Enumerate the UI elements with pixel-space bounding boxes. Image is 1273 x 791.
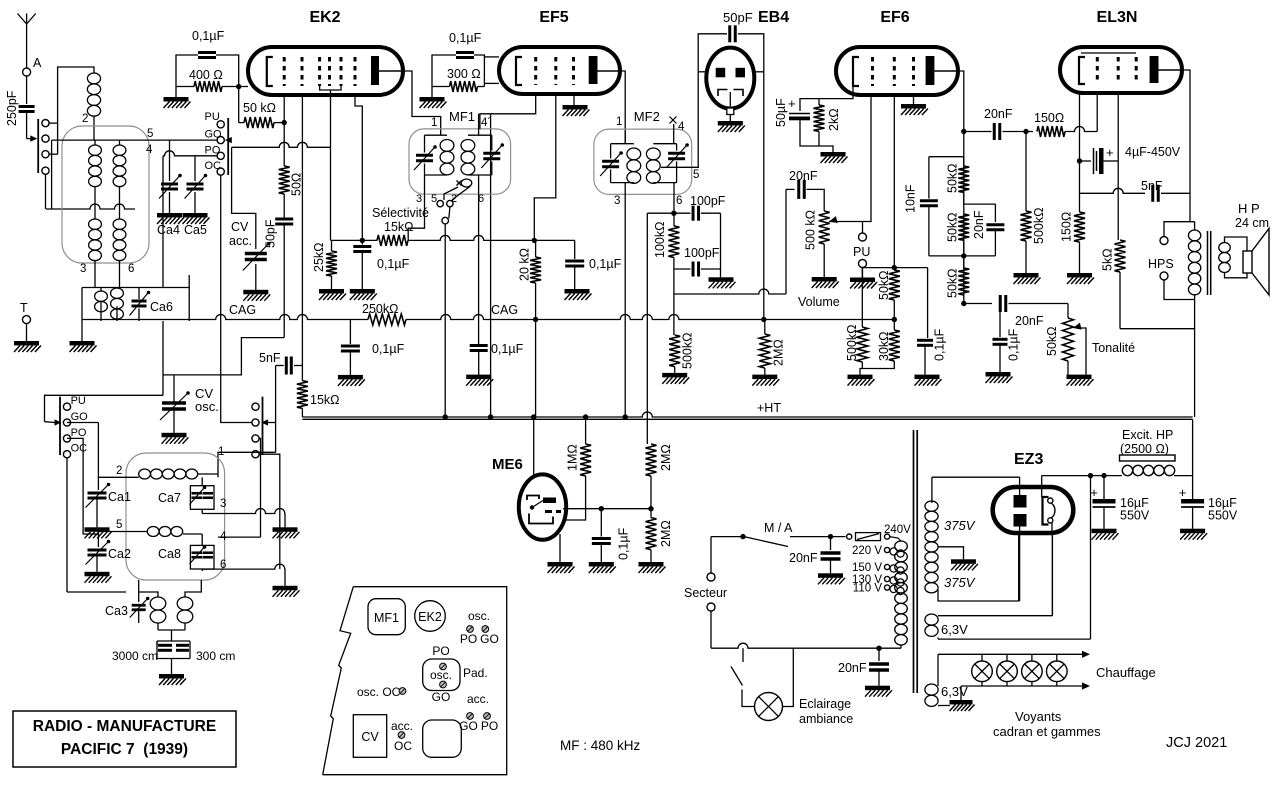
svg-text:30kΩ: 30kΩ <box>877 332 891 362</box>
svg-text:0,1µF: 0,1µF <box>589 257 622 271</box>
svg-text:ME6: ME6 <box>492 456 523 473</box>
svg-text:0,1µF: 0,1µF <box>491 342 524 356</box>
svg-text:Voyants: Voyants <box>1015 709 1062 724</box>
svg-text:0,1µF: 0,1µF <box>449 31 482 45</box>
svg-text:+: + <box>1179 485 1187 500</box>
svg-text:PU: PU <box>71 395 86 407</box>
svg-text:4: 4 <box>146 144 153 156</box>
svg-text:50pF: 50pF <box>723 10 753 25</box>
svg-text:T: T <box>20 301 28 315</box>
svg-text:0,1µF: 0,1µF <box>377 257 410 271</box>
svg-text:50pF: 50pF <box>264 219 278 248</box>
svg-text:acc.: acc. <box>229 234 252 248</box>
svg-text:GO: GO <box>71 411 89 423</box>
svg-text:5: 5 <box>693 169 699 181</box>
svg-text:240V: 240V <box>884 524 911 536</box>
svg-text:Secteur: Secteur <box>684 586 727 600</box>
svg-text:MF : 480 kHz: MF : 480 kHz <box>560 738 641 753</box>
svg-text:CV: CV <box>231 220 249 234</box>
svg-text:Ca4: Ca4 <box>157 223 180 237</box>
svg-text:50Ω: 50Ω <box>290 173 304 196</box>
svg-text:2: 2 <box>116 465 122 477</box>
svg-text:50 kΩ: 50 kΩ <box>243 101 276 115</box>
svg-text:5: 5 <box>116 519 122 531</box>
svg-text:EL3N: EL3N <box>1097 9 1138 26</box>
svg-text:osc.: osc. <box>468 609 490 623</box>
svg-text:GO: GO <box>480 632 499 646</box>
svg-text:PO: PO <box>432 644 449 658</box>
svg-text:2kΩ: 2kΩ <box>827 108 841 131</box>
svg-text:Sélectivité: Sélectivité <box>372 206 429 220</box>
svg-text:EZ3: EZ3 <box>1014 451 1043 468</box>
svg-text:400 Ω: 400 Ω <box>189 68 223 82</box>
svg-text:EF6: EF6 <box>880 9 909 26</box>
svg-text:10nF: 10nF <box>904 184 918 213</box>
svg-text:20nF: 20nF <box>1015 314 1044 328</box>
svg-text:1MΩ: 1MΩ <box>566 444 580 471</box>
svg-text:5: 5 <box>431 193 437 205</box>
svg-text:PACIFIC 7 (1939): PACIFIC 7 (1939) <box>61 741 188 758</box>
svg-text:1: 1 <box>616 116 622 128</box>
svg-text:Ca6: Ca6 <box>150 300 173 314</box>
svg-text:Ca1: Ca1 <box>108 490 131 504</box>
svg-text:2MΩ: 2MΩ <box>659 520 673 547</box>
svg-text:A: A <box>33 56 42 70</box>
svg-text:500kΩ: 500kΩ <box>681 333 695 369</box>
svg-text:5: 5 <box>147 128 153 140</box>
svg-text:OC: OC <box>205 160 222 172</box>
svg-text:500kΩ: 500kΩ <box>845 325 859 361</box>
svg-text:cadran et gammes: cadran et gammes <box>993 724 1101 739</box>
svg-text:5kΩ: 5kΩ <box>1101 248 1115 271</box>
svg-text:50kΩ: 50kΩ <box>946 213 960 243</box>
svg-text:Ca2: Ca2 <box>108 547 131 561</box>
svg-text:3: 3 <box>80 263 86 275</box>
svg-text:20nF: 20nF <box>789 551 818 565</box>
svg-text:150Ω: 150Ω <box>1034 111 1064 125</box>
svg-text:5nF: 5nF <box>259 351 281 365</box>
svg-text:osc.: osc. <box>430 668 452 682</box>
svg-text:acc.: acc. <box>391 719 413 733</box>
svg-text:50kΩ: 50kΩ <box>877 271 891 301</box>
svg-text:300 Ω: 300 Ω <box>447 67 481 81</box>
svg-text:GO: GO <box>432 690 451 704</box>
svg-text:4: 4 <box>678 121 685 133</box>
svg-text:15kΩ: 15kΩ <box>384 220 414 234</box>
svg-text:500kΩ: 500kΩ <box>1032 208 1046 244</box>
svg-text:20nF: 20nF <box>838 661 867 675</box>
svg-text:0,1µF: 0,1µF <box>933 328 947 361</box>
svg-text:2MΩ: 2MΩ <box>659 444 673 471</box>
svg-text:PO: PO <box>481 719 498 733</box>
svg-text:+: + <box>1106 145 1114 160</box>
svg-text:CAG: CAG <box>229 303 256 317</box>
svg-text:+: + <box>1090 485 1098 500</box>
svg-text:6: 6 <box>676 195 682 207</box>
svg-text:3: 3 <box>416 193 422 205</box>
svg-text:100kΩ: 100kΩ <box>653 222 667 258</box>
svg-text:EK2: EK2 <box>309 9 340 26</box>
svg-text:PO: PO <box>71 427 87 439</box>
svg-text:CV: CV <box>361 730 379 744</box>
svg-text:CAG: CAG <box>491 303 518 317</box>
svg-text:20 kΩ: 20 kΩ <box>518 248 532 281</box>
svg-text:1: 1 <box>431 117 437 129</box>
svg-text:25kΩ: 25kΩ <box>312 243 326 273</box>
svg-text:acc.: acc. <box>467 692 489 706</box>
svg-text:150 V: 150 V <box>852 562 882 574</box>
svg-text:0,1µF: 0,1µF <box>617 527 631 560</box>
svg-text:2: 2 <box>82 113 88 125</box>
svg-text:EF5: EF5 <box>539 9 568 26</box>
svg-text:M / A: M / A <box>764 521 793 535</box>
svg-text:50kΩ: 50kΩ <box>1045 327 1059 357</box>
svg-text:PU: PU <box>853 245 870 259</box>
svg-text:osc. OC: osc. OC <box>357 685 401 699</box>
svg-text:Ca3: Ca3 <box>105 604 128 618</box>
svg-text:4µF-450V: 4µF-450V <box>1125 145 1181 159</box>
svg-text:110 V: 110 V <box>853 583 883 595</box>
svg-text:3000 cm: 3000 cm <box>112 649 158 663</box>
svg-text:GO: GO <box>459 719 478 733</box>
svg-text:50µF: 50µF <box>774 98 788 127</box>
svg-text:220 V: 220 V <box>852 545 882 557</box>
svg-text:Volume: Volume <box>798 295 840 309</box>
svg-text:Ca8: Ca8 <box>158 547 181 561</box>
svg-text:GO: GO <box>205 129 223 141</box>
svg-text:15kΩ: 15kΩ <box>310 393 340 407</box>
svg-text:0,1µF: 0,1µF <box>372 342 405 356</box>
svg-text:375V: 375V <box>944 518 976 533</box>
svg-text:OC: OC <box>71 443 88 455</box>
svg-text:(2500 Ω): (2500 Ω) <box>1120 442 1169 456</box>
svg-text:2MΩ: 2MΩ <box>772 339 786 366</box>
svg-text:250kΩ: 250kΩ <box>362 302 398 316</box>
svg-text:H P: H P <box>1238 201 1260 216</box>
svg-text:0,1µF: 0,1µF <box>192 29 225 43</box>
svg-text:300 cm: 300 cm <box>196 649 235 663</box>
svg-text:6: 6 <box>128 263 134 275</box>
svg-text:OC: OC <box>394 739 412 753</box>
svg-text:RADIO - MANUFACTURE: RADIO - MANUFACTURE <box>33 718 216 735</box>
svg-text:ambiance: ambiance <box>799 712 853 726</box>
svg-text:MF2: MF2 <box>634 109 660 124</box>
svg-text:MF1: MF1 <box>449 109 475 124</box>
svg-text:Ca5: Ca5 <box>184 223 207 237</box>
svg-text:+HT: +HT <box>757 401 781 415</box>
svg-text:JCJ 2021: JCJ 2021 <box>1166 735 1227 751</box>
svg-text:500 kΩ: 500 kΩ <box>804 210 818 250</box>
svg-text:3: 3 <box>220 498 226 510</box>
svg-text:150Ω: 150Ω <box>1060 212 1074 242</box>
svg-text:50kΩ: 50kΩ <box>946 269 960 299</box>
svg-text:6,3V: 6,3V <box>941 622 968 637</box>
svg-text:20nF: 20nF <box>972 210 986 239</box>
svg-text:100pF: 100pF <box>684 246 720 260</box>
svg-text:550V: 550V <box>1208 509 1238 523</box>
svg-text:0,1µF: 0,1µF <box>1007 328 1021 361</box>
svg-text:Excit. HP: Excit. HP <box>1122 428 1173 442</box>
svg-text:250pF: 250pF <box>5 90 19 126</box>
svg-text:Pad.: Pad. <box>463 666 488 680</box>
svg-text:Eclairage: Eclairage <box>799 697 851 711</box>
svg-text:24 cm: 24 cm <box>1235 216 1269 230</box>
svg-text:1: 1 <box>218 446 224 458</box>
svg-text:+: + <box>788 96 796 111</box>
svg-text:PO: PO <box>205 145 221 157</box>
svg-text:PO: PO <box>460 632 477 646</box>
svg-text:3: 3 <box>614 195 620 207</box>
svg-text:Ca7: Ca7 <box>158 491 181 505</box>
svg-text:Tonalité: Tonalité <box>1092 341 1135 355</box>
svg-text:550V: 550V <box>1120 509 1150 523</box>
svg-text:Chauffage: Chauffage <box>1096 665 1156 680</box>
svg-text:20nF: 20nF <box>984 107 1013 121</box>
svg-text:100pF: 100pF <box>690 194 726 208</box>
svg-text:EK2: EK2 <box>418 610 442 624</box>
svg-text:4´: 4´ <box>481 117 491 129</box>
svg-text:MF1: MF1 <box>374 611 399 625</box>
svg-text:PU: PU <box>205 111 220 123</box>
svg-text:375V: 375V <box>944 575 976 590</box>
svg-text:osc.: osc. <box>195 399 219 414</box>
svg-text:50kΩ: 50kΩ <box>946 164 960 194</box>
svg-text:HPS: HPS <box>1148 257 1174 271</box>
svg-text:EB4: EB4 <box>758 9 789 26</box>
